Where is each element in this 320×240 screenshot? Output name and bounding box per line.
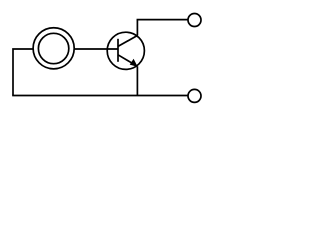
- microphone MIC inner circle: [38, 33, 68, 63]
- terminal T1 top-right: [188, 14, 201, 27]
- transistor Q1 base bar: [117, 39, 119, 62]
- wire mic right to transistor base: [74, 48, 118, 50]
- wire collector up: [136, 20, 138, 36]
- microphone MIC outer circle: [33, 28, 74, 69]
- transistor Q1 envelope circle: [107, 32, 144, 69]
- transistor Q1 emitter arrowhead: [130, 59, 138, 67]
- wire top rail to terminal: [137, 19, 189, 21]
- wire bottom rail: [12, 95, 188, 97]
- wire emitter down: [136, 66, 138, 96]
- transistor Q1 collector diagonal: [118, 36, 137, 47]
- terminal T2 bottom-right: [188, 89, 201, 102]
- wire mic left to bottom-left corner: [13, 49, 33, 96]
- transistor Q1 emitter diagonal: [118, 55, 137, 67]
